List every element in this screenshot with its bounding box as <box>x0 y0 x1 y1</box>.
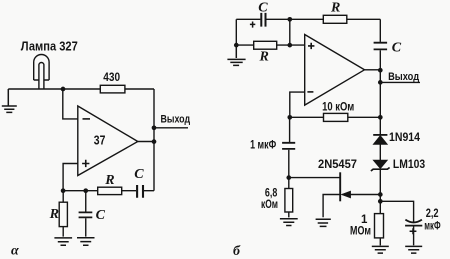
label 6,8 кОм <box>261 188 278 211</box>
label 2,2 мкФ <box>424 208 440 233</box>
ground under 2,2 мкФ <box>405 246 422 253</box>
op-amp U2 triangle <box>305 35 365 106</box>
svg-text:б: б <box>233 244 241 259</box>
node dot op-amp b output junction <box>378 68 383 73</box>
wire right rail (cap to output node) <box>379 50 381 82</box>
svg-text:2N5457: 2N5457 <box>318 157 357 171</box>
node dot gate branch on rail <box>378 192 383 197</box>
wire bottom RC network <box>63 190 154 192</box>
svg-text:10 кОм: 10 кОм <box>322 99 354 113</box>
svg-text:МОм: МОм <box>350 226 371 238</box>
node dot rail at 10 кОм <box>378 115 383 120</box>
resistor R (row2, circuit b) <box>254 41 277 49</box>
wire output b <box>380 81 420 83</box>
svg-text:C: C <box>96 208 106 223</box>
node dot C branch <box>83 188 88 193</box>
ground (transistor source) <box>316 219 331 226</box>
diode D1 1N914 <box>373 135 387 144</box>
op-amp U1 minus sign <box>83 118 91 120</box>
resistor 6,8 кОм <box>285 178 293 218</box>
wire right rail top segment <box>379 19 381 42</box>
svg-text:1 мкФ: 1 мкФ <box>250 138 276 152</box>
svg-text:Лампа 327: Лампа 327 <box>21 40 78 54</box>
resistor R (horizontal, circuit a) <box>98 187 122 194</box>
wire to capacitor 2,2 мкФ <box>380 201 413 222</box>
wire noninverting input (circuit a) <box>63 164 78 191</box>
op-amp U2 plus sign <box>308 43 314 49</box>
plus polarity mark (2,2 мкФ) <box>410 228 417 234</box>
resistor R (top, circuit b) <box>323 15 347 23</box>
capacitor C (vertical, circuit a) <box>79 191 93 237</box>
capacitor 2,2 мкФ (polarized) <box>405 220 422 246</box>
plus polarity mark (top capacitor b) <box>250 22 255 28</box>
resistor 430 <box>100 85 125 93</box>
svg-text:1N914: 1N914 <box>389 132 421 144</box>
node dot output a <box>152 125 157 130</box>
ground (left rail b) <box>227 45 245 65</box>
node dot noninverting junction b <box>287 43 292 48</box>
svg-text:C: C <box>392 40 402 55</box>
svg-text:37: 37 <box>94 134 106 148</box>
wire row2 (circuit b) <box>236 44 304 46</box>
wire resistor R top to rail <box>347 18 381 20</box>
svg-text:кОм: кОм <box>261 199 278 211</box>
wire rail between diodes <box>379 144 381 160</box>
svg-text:C: C <box>134 167 144 182</box>
ground under 1 МОм <box>372 246 389 253</box>
wire left rail (circuit b) <box>235 19 237 45</box>
svg-text:мкФ: мкФ <box>424 221 440 233</box>
resistor R (vertical, circuit a) <box>59 191 67 237</box>
node dot op-amp a output junction <box>152 139 157 144</box>
wire junction to resistor R top <box>290 18 324 20</box>
op-amp U1 triangle <box>78 106 138 176</box>
wire top left (circuit b) <box>236 18 260 20</box>
node dot inverting branch <box>287 115 292 120</box>
svg-text:C: C <box>258 1 268 16</box>
node dot top junction b <box>287 17 292 22</box>
svg-text:R: R <box>49 207 59 222</box>
wire feedback rail (circuit a) <box>153 89 155 191</box>
wire inverting input loop (10 kOhm) <box>290 92 381 117</box>
lamp HL1 (327) <box>34 55 49 89</box>
transistor Q1 2N5457 <box>323 172 380 217</box>
wire rail diode to gate node <box>379 170 381 214</box>
svg-text:2,2: 2,2 <box>426 208 439 220</box>
node dot R branch <box>61 188 66 193</box>
svg-text:430: 430 <box>103 70 120 84</box>
node dot left rail b <box>234 43 239 48</box>
wire C-R junction vertical (circuit b) <box>289 19 291 45</box>
wire capacitor to junction (circuit b top) <box>267 18 290 20</box>
svg-text:α: α <box>11 243 19 258</box>
svg-text:Выход: Выход <box>161 113 191 125</box>
op-amp U2 minus sign <box>307 91 313 93</box>
svg-text:R: R <box>104 173 114 188</box>
ground (lamp return, circuit a) <box>2 89 17 112</box>
svg-text:6,8: 6,8 <box>265 188 278 200</box>
wire output a <box>154 127 188 129</box>
svg-text:LM103: LM103 <box>393 159 425 171</box>
node dot divider/gate <box>286 175 291 180</box>
capacitor C (horizontal, circuit a) <box>137 185 143 198</box>
wire op-amp b output <box>365 69 381 71</box>
wire resistor 430 to feedback rail <box>125 88 154 90</box>
node dot (lamp / inverting branch) <box>61 87 66 92</box>
svg-text:Выход: Выход <box>388 71 419 83</box>
wire node a (ground to resistor 430) <box>8 88 100 90</box>
diode D2 LM103 (reference) <box>371 160 390 171</box>
capacitor 1 мкФ <box>282 117 295 177</box>
capacitor C (top, polarized, circuit b) <box>261 13 265 27</box>
svg-text:1: 1 <box>361 214 368 226</box>
resistor 10 кОм <box>324 113 348 121</box>
wire right rail (output to diode D1) <box>379 82 381 134</box>
resistor 1 МОм <box>375 214 384 246</box>
wire gate node to transistor drain <box>289 177 340 179</box>
svg-text:R: R <box>259 50 269 65</box>
ground under R (circuit a) <box>54 238 72 245</box>
node dot output b <box>378 80 383 85</box>
wire inverting input (circuit a) <box>63 89 78 119</box>
svg-text:R: R <box>330 1 340 16</box>
capacitor C (right rail, circuit b) <box>374 43 388 50</box>
wire op-amp output to rail <box>138 141 154 143</box>
node dot capacitor branch on rail <box>378 199 383 204</box>
ground under 6,8 кОм <box>280 219 298 226</box>
ground under C (circuit a) <box>77 238 95 245</box>
label 1 МОм <box>350 214 371 238</box>
op-amp U1 plus sign <box>82 160 89 167</box>
